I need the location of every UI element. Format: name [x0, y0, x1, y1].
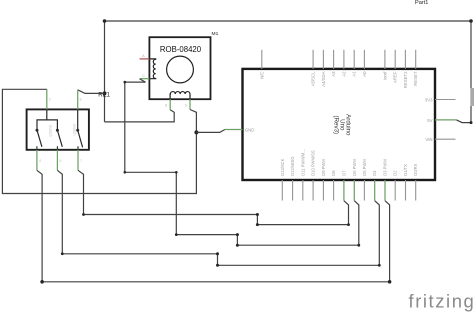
svg-text:D1/TX: D1/TX — [403, 164, 408, 176]
Arduino bottom pin D4 (green) — [374, 180, 376, 201]
switch pin number labels — [39, 98, 82, 163]
motor coil B (bottom) — [170, 92, 190, 100]
svg-text:ROB-08420: ROB-08420 — [160, 45, 202, 54]
Arduino top pin A0 — [363, 50, 365, 69]
Arduino top pin labels — [259, 71, 418, 89]
svg-text:D12/MISO: D12/MISO — [290, 157, 295, 176]
wire bendpoint 5V lower — [470, 121, 473, 124]
Arduino bottom pin D9 PWM — [322, 180, 324, 201]
node RE1 junction dot — [103, 91, 107, 95]
Arduino bottom pin D3 PWM (green) — [384, 180, 386, 201]
svg-text:M1: M1 — [212, 31, 219, 37]
wire: GND net long left loop (junction to switch pin1) — [2, 89, 196, 193]
svg-text:D: D — [185, 104, 188, 108]
svg-text:D13/SCK: D13/SCK — [280, 158, 285, 175]
svg-text:RESET: RESET — [413, 71, 418, 86]
Arduino title text — [332, 114, 351, 136]
wire C: switch pin2 to Arduino D4 — [57, 170, 379, 265]
Arduino bottom pin D12/MISO — [292, 180, 294, 201]
svg-text:A0: A0 — [362, 71, 367, 77]
wire bendpoint dots at staircase corners — [347, 223, 350, 226]
Arduino U1 (Part1) box — [243, 69, 436, 180]
svg-text:VIN: VIN — [425, 137, 432, 142]
Arduino bottom pin D6 PWM (green) — [353, 180, 355, 201]
motor M1 box — [149, 37, 210, 99]
Arduino right pin VIN — [435, 138, 456, 140]
svg-text:D9 PWM: D9 PWM — [321, 159, 326, 176]
svg-text:AREF: AREF — [393, 71, 398, 83]
svg-text:RESET2: RESET2 — [403, 71, 408, 88]
svg-text:3: 3 — [49, 98, 51, 102]
motor pin coil B- (green, bottom-right) — [189, 99, 191, 109]
switch lever C — [78, 130, 83, 147]
svg-text:D4: D4 — [372, 170, 377, 176]
junction GND node dot — [194, 130, 198, 134]
Arduino bottom pin D5 PWM — [363, 180, 365, 201]
Arduino top pin A1 — [353, 50, 355, 69]
svg-text:Switch: Switch — [72, 123, 77, 136]
svg-text:C: C — [142, 74, 145, 78]
wire: GND from motor coil B- down to junction — [190, 110, 196, 133]
switch RE1 box — [27, 109, 89, 149]
Arduino top pin A3 — [333, 50, 335, 69]
motor pin number labels — [142, 54, 187, 107]
svg-text:D3 PWM: D3 PWM — [383, 159, 388, 176]
wire: 5V net top run (Arduino 5V to node RE1) — [105, 21, 472, 123]
switch bottom pin 3 (green) — [77, 150, 79, 171]
Arduino bottom pin D10 PWM/SS — [312, 180, 314, 201]
svg-text:(Rev3): (Rev3) — [332, 116, 339, 135]
switch bottom contact tick 2 — [56, 146, 58, 150]
svg-text:fritzing: fritzing — [409, 291, 474, 312]
Arduino top pin A5/SCL — [312, 50, 314, 69]
Arduino top pin ioref — [384, 50, 386, 69]
switch contact dot A — [36, 129, 39, 132]
wire D: switch pin1 to Arduino D3 PWM — [37, 170, 390, 281]
svg-text:A4/SDA: A4/SDA — [321, 71, 326, 86]
svg-text:D0/RX: D0/RX — [413, 163, 418, 175]
motor pin coil B+ (green, bottom-left) — [169, 99, 171, 110]
Arduino bottom pin D2 — [394, 180, 396, 201]
switch lever A — [37, 130, 42, 147]
svg-text:Part1: Part1 — [415, 0, 428, 6]
wire: 5V branch to motor coil B+ pin — [105, 110, 175, 122]
switch bottom pin 2 (green) — [56, 150, 58, 171]
svg-text:Switch: Switch — [48, 125, 53, 138]
switch bottom pin 1 (green) — [36, 150, 38, 171]
svg-text:A2: A2 — [341, 71, 346, 77]
Arduino top pin RESET2 — [404, 50, 406, 69]
svg-text:D2: D2 — [393, 170, 398, 176]
wire: 5V net left vertical into node RE1 — [104, 21, 106, 122]
switch bottom contact tick 1 — [36, 146, 38, 150]
wire A: motor coil A- to Arduino D6 PWM — [125, 79, 359, 245]
Arduino top pin A4/SDA — [322, 50, 324, 69]
wire A bendpoint dots — [236, 233, 239, 236]
motor pin coil A- (green) — [140, 78, 150, 80]
svg-text:D7: D7 — [341, 170, 346, 176]
switch contact dot C — [76, 129, 79, 132]
svg-text:D8: D8 — [331, 170, 336, 176]
Arduino top pin A2 — [343, 50, 345, 69]
switch pole2 common — [77, 109, 79, 130]
motor pin coil A+ (red, unconnected) — [140, 58, 150, 60]
Arduino bottom pin D13/SCK — [281, 180, 283, 201]
svg-text:3V3: 3V3 — [425, 97, 433, 102]
Arduino right pin 5V (green) — [435, 119, 457, 121]
clipped gray component at right edge — [471, 88, 474, 106]
Arduino left pin GND (green) — [225, 129, 243, 131]
switch top pin 1 (green, connected) — [46, 89, 48, 109]
svg-text:4: 4 — [39, 159, 41, 163]
svg-text:A5/SCL: A5/SCL — [311, 71, 316, 86]
Arduino top pin AREF — [394, 50, 396, 69]
svg-text:D5 PWM: D5 PWM — [362, 159, 367, 176]
svg-text:GND: GND — [245, 127, 255, 132]
node RE1 bendpoint top — [103, 19, 107, 23]
svg-text:D10 PWM/SS: D10 PWM/SS — [311, 150, 316, 176]
Arduino top pin RESET — [415, 50, 417, 69]
switch lever B — [57, 130, 62, 147]
switch inner label 2 — [72, 123, 77, 136]
wire B: switch pin3 to Arduino D7 — [78, 170, 349, 224]
Arduino bottom pin D7 (green) — [343, 180, 345, 201]
svg-text:7: 7 — [80, 159, 82, 163]
switch contact dot B — [56, 129, 59, 132]
Arduino bottom pin D8 — [333, 180, 335, 201]
Arduino bottom pin D1/TX — [405, 180, 407, 201]
switch bottom contact tick 3 — [77, 146, 79, 150]
Arduino bottom pin labels — [280, 149, 418, 176]
svg-text:A1: A1 — [352, 71, 357, 77]
motor coil A (left side) — [149, 59, 155, 79]
svg-text:6: 6 — [60, 159, 62, 163]
Arduino right pin 3V3 — [435, 99, 456, 101]
wire: junction to Arduino GND pin — [196, 130, 225, 133]
switch inner label 1 — [48, 125, 53, 138]
svg-text:5V: 5V — [427, 118, 432, 123]
svg-text:D6 PWM: D6 PWM — [352, 159, 357, 176]
svg-text:D11 PWM/M…: D11 PWM/M… — [300, 149, 305, 176]
switch top pin 2 (green, connected) — [77, 90, 79, 110]
Arduino bottom pin D0/RX — [415, 180, 417, 201]
switch pole1 common tee — [46, 109, 48, 120]
Arduino bottom pin D11 PWM/MOSI — [302, 180, 304, 201]
svg-text:ioref: ioref — [382, 71, 387, 80]
motor rotor circle — [167, 56, 194, 83]
svg-text:8: 8 — [80, 98, 82, 102]
svg-text:N/C: N/C — [259, 72, 264, 79]
svg-text:A3: A3 — [331, 71, 336, 77]
wire bendpoint top-right — [469, 19, 473, 23]
wire: 5V to switch common pin 2 (diagonal) — [78, 90, 105, 94]
Arduino top pin N/C — [261, 50, 263, 69]
